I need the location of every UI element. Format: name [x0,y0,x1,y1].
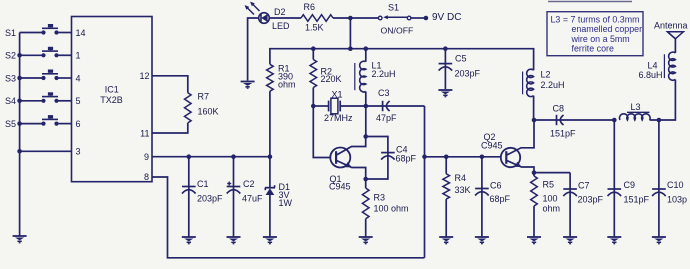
svg-text:203pF: 203pF [197,194,223,204]
node [187,154,192,159]
switch S1 ON/OFF [378,3,413,36]
svg-text:11: 11 [140,128,149,138]
ground [438,90,452,97]
antenna [654,21,688,54]
svg-text:C1: C1 [197,179,209,189]
svg-text:R4: R4 [455,173,467,183]
node [364,46,369,51]
node [231,154,236,159]
svg-text:C7: C7 [578,181,590,191]
wire [365,106,367,137]
svg-text:3: 3 [76,147,81,157]
svg-text:D2: D2 [274,7,286,17]
wire (cropped line top right) [548,1,632,3]
capacitor C8 [534,104,614,139]
node [612,118,617,123]
svg-text:enamelled copper: enamelled copper [572,24,643,34]
svg-text:C945: C945 [329,182,351,192]
svg-text:160K: 160K [198,107,219,117]
op-amp U1 IC1 TX2B [72,17,153,182]
svg-text:LED: LED [272,21,290,31]
ground [227,237,241,244]
wire (supply rail) [270,49,534,70]
svg-text:R7: R7 [198,92,210,102]
svg-text:68pF: 68pF [396,154,417,164]
node [444,155,449,160]
svg-text:S1: S1 [388,3,399,13]
svg-text:6: 6 [76,119,81,129]
capacitor C9 [608,120,650,237]
switch S5 pushbutton [5,115,72,129]
wire [534,172,570,174]
wire (Q2 emitter) [507,161,534,173]
wire (pin 3) [20,150,72,152]
ground [241,82,255,89]
wire [349,18,351,49]
svg-text:2.2uH: 2.2uH [372,69,396,79]
ground [439,237,453,244]
capacitor C1 [182,157,223,237]
svg-text:14: 14 [76,28,86,38]
ground [607,237,621,244]
node 9V DC terminal [424,12,462,23]
node [17,121,22,126]
node [532,170,537,175]
svg-text:C10: C10 [667,180,684,190]
resistor R2 [310,49,342,106]
svg-text:103p: 103p [667,195,687,205]
svg-text:220K: 220K [321,74,342,84]
node [311,104,316,109]
svg-text:151pF: 151pF [624,195,650,205]
svg-text:L3: L3 [631,102,641,112]
capacitor C4 [366,137,417,180]
node [363,177,368,182]
capacitor C2 [227,157,263,237]
wire (Q1 emitter) [337,161,366,180]
svg-text:C3: C3 [378,88,390,98]
capacitor C6 [475,157,510,237]
svg-text:1W: 1W [279,198,293,208]
pin numbers IC1 [76,28,150,182]
svg-text:L3 = 7 turms of 0.3mm: L3 = 7 turms of 0.3mm [551,14,640,24]
wire [269,91,271,157]
svg-text:S1: S1 [5,28,16,38]
svg-text:ON/OFF: ON/OFF [381,26,414,36]
wire (switch bus) [19,33,21,236]
inductor L1 [355,49,396,106]
ground [527,237,541,244]
wire (pin 9 rail) [152,156,270,158]
note box L3 [547,12,643,56]
ground [359,237,373,244]
svg-text:S3: S3 [5,73,16,83]
LED D2 [245,2,290,31]
svg-text:C6: C6 [490,181,502,191]
svg-text:wire on a 5mm: wire on a 5mm [571,34,630,44]
resistor R5 [531,173,560,237]
ground [475,237,489,244]
node [443,46,448,51]
wire [411,17,426,19]
node [17,76,22,81]
svg-text:203pF: 203pF [578,195,604,205]
inductor L3 [620,102,651,120]
svg-text:12: 12 [139,71,149,81]
wire [650,80,676,121]
node (junction top rail) [348,16,353,21]
crystal X1 [313,89,366,123]
inductor L4 [639,52,676,80]
transistor Q1 [329,148,351,192]
svg-text:203pF: 203pF [455,68,481,78]
svg-text:9V DC: 9V DC [432,12,461,23]
svg-text:R3: R3 [374,193,386,203]
capacitor C5 [439,49,481,89]
svg-text:47pF: 47pF [376,113,397,123]
svg-text:S4: S4 [5,96,16,106]
resistor R1 [267,64,296,92]
svg-text:100: 100 [543,194,558,204]
svg-text:Antenna: Antenna [654,21,688,31]
diode D1 zener [265,157,293,237]
resistor R3 [362,179,408,237]
svg-text:8: 8 [144,172,149,182]
resistor R6 [301,2,333,33]
inductor L2 [523,69,565,119]
capacitor C10 [652,120,687,237]
svg-text:47uF: 47uF [242,194,263,204]
svg-text:S5: S5 [5,119,16,129]
svg-text:6.8uH: 6.8uH [639,70,663,80]
svg-text:4: 4 [76,73,81,83]
svg-text:S2: S2 [5,51,16,61]
node [422,155,427,160]
node [480,155,485,160]
svg-text:X1: X1 [332,89,343,99]
ground [652,237,666,244]
svg-text:68pF: 68pF [490,194,511,204]
ground [182,237,196,244]
wire [269,17,301,19]
node [348,46,353,51]
svg-text:C5: C5 [455,54,467,64]
wire (pin 8 / bottom rail) [152,177,425,258]
wire [248,18,259,81]
wire (pin 11) [152,123,188,133]
resistor R4 [443,157,471,237]
svg-text:TX2B: TX2B [100,95,123,105]
wire [313,106,330,158]
wire [424,106,426,258]
node [364,104,369,109]
svg-text:ohm: ohm [543,204,561,214]
svg-text:R6: R6 [304,2,316,12]
svg-text:ferrite core: ferrite core [572,44,614,54]
node [268,154,273,159]
node [17,149,22,154]
wire (Q2 base line) [425,156,501,158]
svg-text:33K: 33K [455,185,471,195]
capacitor C7 [563,173,603,237]
svg-text:151pF: 151pF [550,129,576,139]
switch S1 pushbutton [5,24,72,38]
svg-text:R5: R5 [543,180,555,190]
svg-text:27MHz: 27MHz [324,113,353,123]
svg-text:ohm: ohm [278,80,296,90]
svg-text:C2: C2 [243,179,255,189]
svg-text:C8: C8 [553,104,565,114]
node [657,118,662,123]
svg-text:C9: C9 [624,180,636,190]
wire (Q1 collector) [337,137,366,156]
switch S3 pushbutton [5,70,72,84]
capacitor C3 [366,88,425,123]
node [311,46,316,51]
ground [563,237,577,244]
svg-text:C945: C945 [481,141,503,151]
svg-text:IC1: IC1 [105,85,119,95]
node [363,134,368,139]
wire (Q2 collector) [507,121,534,156]
svg-text:L2: L2 [541,70,551,80]
wire [333,17,379,19]
wire (pin 12) [152,76,188,93]
switch S2 pushbutton [5,47,72,61]
resistor R7 [185,92,219,123]
svg-text:9: 9 [144,152,149,162]
svg-text:5: 5 [76,96,81,106]
svg-text:2.2uH: 2.2uH [541,80,565,90]
ground [263,237,277,244]
node [532,118,537,123]
node [17,53,22,58]
transistor Q2 [481,132,520,167]
svg-text:100 ohm: 100 ohm [374,204,409,214]
svg-text:1: 1 [76,51,81,61]
node [17,99,22,104]
ground [13,236,27,243]
switch S4 pushbutton [5,92,72,106]
svg-text:1.5K: 1.5K [305,23,324,33]
